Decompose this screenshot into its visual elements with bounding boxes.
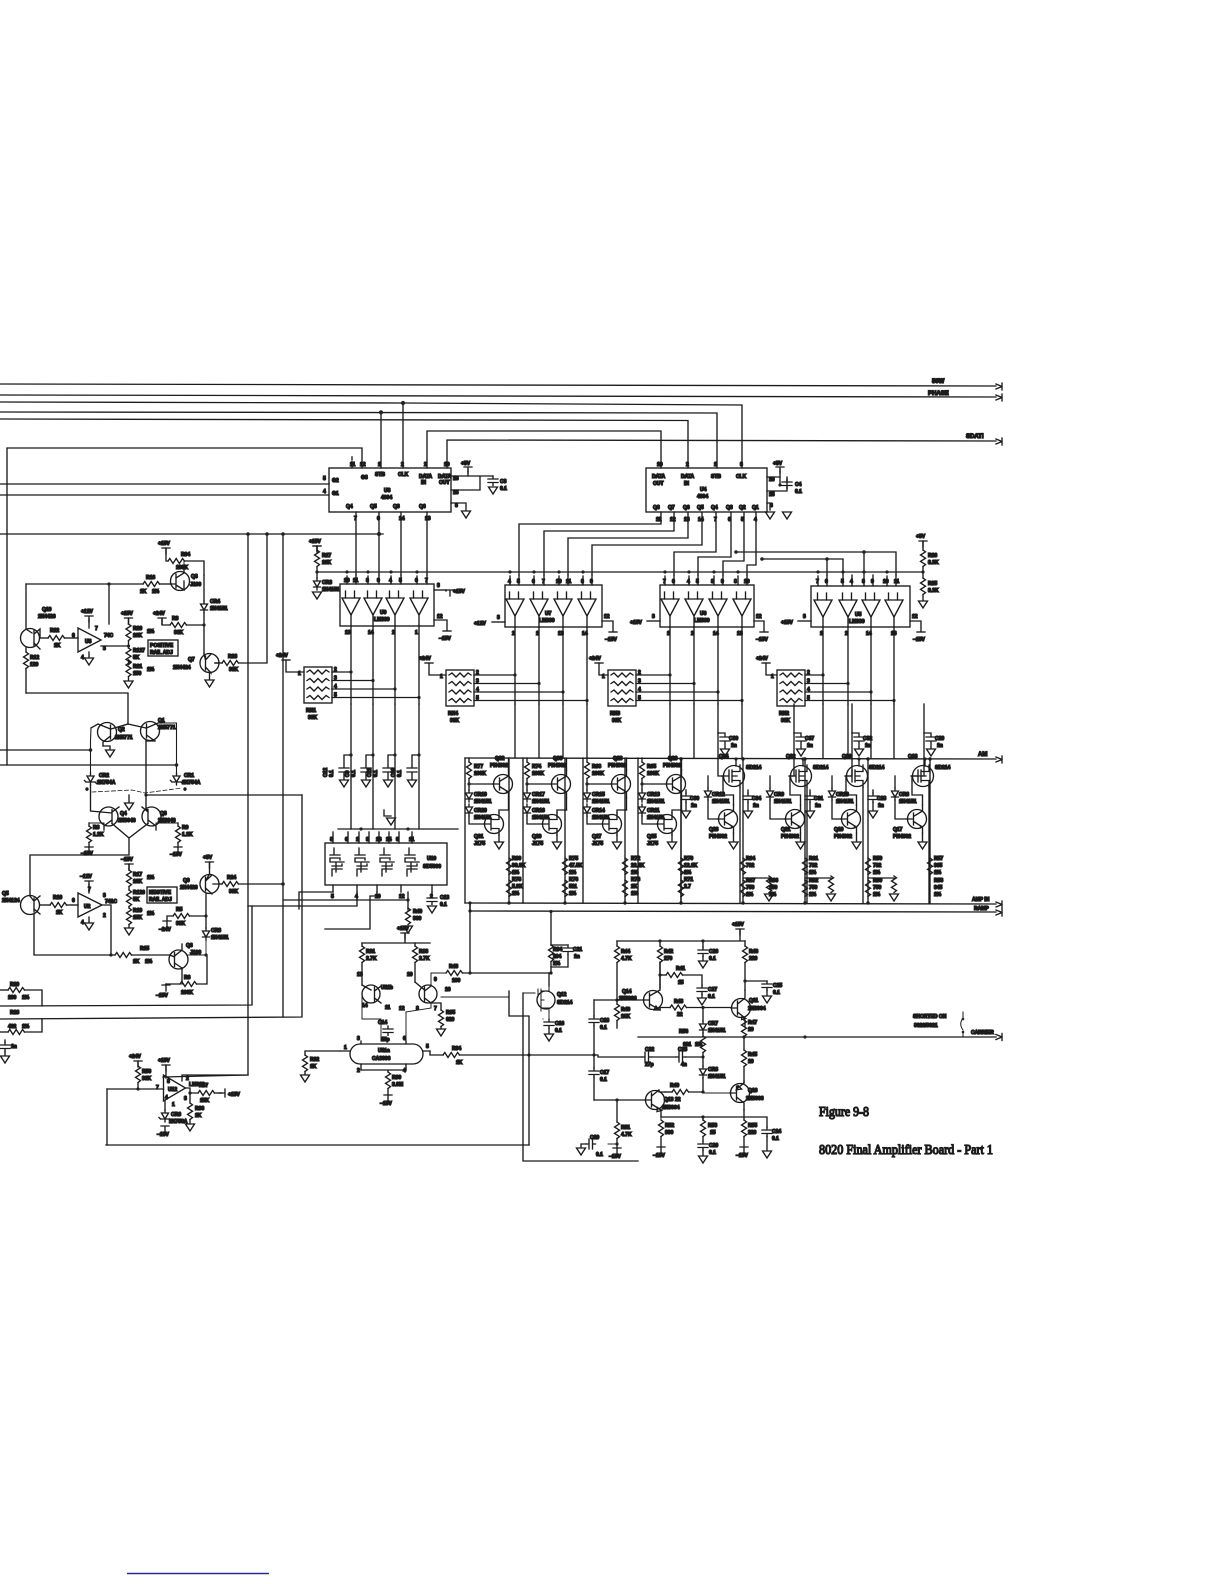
resistor R27b 1K column — [313, 546, 321, 552]
resistor R53 15 — [702, 1117, 704, 1120]
resistor R74 100K — [526, 758, 528, 762]
blue underline mark — [127, 1573, 269, 1575]
capacitor C27 0.1 — [697, 985, 707, 995]
diode CR7 1N4151 — [702, 1008, 704, 1022]
resistor R9 1.2K — [177, 823, 179, 826]
node RAMP line — [470, 911, 996, 912]
capacitor C32 1n + gate wire — [846, 704, 852, 776]
resistor R31 2.7K — [361, 943, 363, 946]
node AMP IN rail — [465, 903, 996, 904]
wire array right border — [929, 758, 931, 903]
capacitor C17 0.1 — [593, 1026, 595, 1069]
bias cell Q26 — [638, 756, 698, 903]
wire Q1Q2 base feed — [26, 693, 128, 724]
resistor R51 4.7K — [616, 1100, 618, 1122]
wire bus line 1 (50W) — [0, 384, 996, 386]
capacitor C1n left — [4, 1040, 6, 1042]
capacitor C24 0.1 — [744, 1117, 767, 1127]
resistor R8 1.2K — [90, 823, 104, 830]
diode CR19 1N4151 — [466, 790, 473, 802]
resistor R17 10K — [125, 864, 133, 870]
op-amp U3 74C — [72, 609, 114, 665]
transistor Q25 J175 — [657, 813, 677, 835]
wire U3 out to R127 — [101, 645, 129, 647]
transistor Q1 2N5771 — [128, 718, 176, 741]
transistor Q23 PN4392 — [718, 805, 738, 833]
output cell Q20 SD214 — [803, 704, 885, 903]
diode CR11 1N4151 — [639, 804, 646, 816]
resistor R22 1K — [40, 637, 48, 639]
wire bus line 2 (PHASE) — [0, 395, 996, 397]
capacitor C14 15p — [376, 1022, 386, 1038]
transistor Q2 2N5771 — [91, 722, 133, 746]
capacitor C22 27p — [594, 1055, 642, 1057]
ground U4 pin8 — [767, 503, 770, 510]
wire feedback y1145 — [106, 1144, 529, 1146]
transistor Q9 2N4426 — [180, 874, 219, 894]
resistor R68 100K — [586, 758, 588, 762]
resistor R28 402 1% — [0, 1031, 8, 1033]
capacitor C39 1n + gate wire — [718, 733, 723, 776]
wire U8 outputs to U9 inputs — [356, 512, 427, 575]
ground stub near U10 — [384, 810, 391, 816]
resistor R48 22 — [660, 1008, 670, 1011]
ic U8 4094 — [323, 456, 459, 522]
resistor R19 15K — [128, 907, 130, 909]
resistor R50 33K — [134, 1061, 142, 1067]
wire long vertical x248 — [163, 534, 248, 1077]
wire U8 data-out / SDATI — [447, 440, 996, 468]
resistor R24 33K — [219, 883, 222, 885]
transistor U11b right — [415, 982, 437, 1003]
diode CR14 1N4151 — [584, 804, 591, 816]
resistor R55 220 — [743, 1117, 745, 1120]
resistor network RN3 33K — [589, 656, 744, 724]
diode CR3 1N4151 — [205, 894, 207, 928]
capacitor C10 0.1 — [391, 704, 421, 829]
wire U4 pin15 to C4 — [767, 477, 787, 491]
transistor Q6 J109 — [169, 943, 201, 969]
resistor R33 2.7K — [414, 943, 416, 946]
mosfet Q18 SD214 — [911, 765, 934, 787]
wire bus line 4 (STB) — [0, 412, 717, 468]
node +15V rail U11 — [401, 933, 409, 939]
resistor R37 15K — [186, 1088, 199, 1093]
resistor R56 681 1% — [702, 1033, 704, 1036]
thermal coupling dashed — [92, 788, 182, 793]
output cell Q24 SD214 — [679, 733, 779, 903]
switch glyph — [961, 1012, 963, 1037]
bias cell Q32 — [465, 756, 526, 903]
diode CR3 — [314, 578, 321, 590]
diode CR17 1N4151 — [524, 790, 531, 802]
label NEGTIVE RAIL ADJ — [147, 887, 177, 903]
potentiometer R126 5K — [128, 887, 130, 891]
capacitor C28 1n — [868, 793, 878, 803]
resistor R35 620 — [431, 1003, 441, 1010]
wire U4 to U5 inputs nest — [736, 552, 896, 575]
capacitor C34 1n — [743, 793, 753, 803]
zener CR6 1N758A — [164, 1101, 166, 1110]
zener CR2 1N754A — [85, 773, 97, 785]
transistor Q27 J175 — [602, 813, 622, 835]
wire bus line 5 (DATA IN) — [0, 419, 688, 468]
ic U4 4094 — [646, 462, 775, 523]
transistor Q28 PN4392 — [611, 770, 631, 798]
diode CR8 1N4151 — [892, 788, 899, 800]
output cell Q18 SD214 — [866, 704, 951, 903]
resistor R12 120 — [25, 647, 27, 652]
wire feedback chain x509 x529 — [469, 903, 471, 971]
wire Q14 base chain — [594, 999, 617, 1001]
comparator bank U5 LM339 — [781, 570, 925, 643]
diode CR13 1N4151 — [639, 790, 646, 802]
resistor R27 1K — [313, 546, 321, 552]
mosfet Q12 SD214 — [523, 986, 573, 1013]
diode CR16 1N4151 — [524, 804, 531, 816]
comparator bank U6 LM339 — [630, 570, 768, 643]
wire U4 pin16 +5V — [767, 470, 780, 477]
transistor Q8 J109 — [171, 565, 202, 591]
wire bases / pins — [362, 994, 406, 1041]
node AM rail — [465, 758, 996, 759]
transistor Q19 PN4392 — [841, 805, 861, 833]
resistor R15 1K — [115, 953, 132, 958]
transistor Q13 2N3904 — [645, 1090, 680, 1117]
transistor Q30 PN4392 — [551, 770, 571, 798]
capacitor C26 0.1 — [702, 941, 704, 947]
capacitor C31 1n — [805, 793, 815, 803]
diode CR10 1N4151 — [829, 788, 836, 800]
resistor R34b 294 1% — [550, 911, 552, 945]
capacitor C12 0.1 — [323, 704, 353, 829]
resistor R65 100K — [641, 758, 643, 762]
comparator bank U9 LM339 — [340, 570, 465, 642]
wire long vertical x283 — [282, 534, 284, 1017]
resistor R45 10 — [743, 1037, 745, 1050]
resistor R40 360 — [407, 892, 409, 910]
wire U8 data-in from U4 data-out — [427, 431, 661, 468]
transistor Q32 PN4392 — [493, 770, 513, 798]
wire R16 net — [26, 583, 143, 585]
resistor R47 10 — [744, 1014, 746, 1026]
resistor R10 1K — [40, 904, 50, 906]
capacitor C19 0.1 — [608, 1143, 617, 1145]
node CARRIER line — [638, 1036, 996, 1038]
resistor R94 100K — [162, 548, 170, 554]
wire long rail y534 — [0, 533, 383, 535]
resistor R6 100K — [166, 968, 182, 984]
op-amp U2 741C — [72, 874, 117, 930]
resistor R44 4.7K — [616, 941, 618, 946]
transistor Q5 2N4124 — [2, 891, 40, 915]
wire y1017 to x302 — [0, 795, 302, 1019]
wire U4 Q8-Q5 to U7 inputs — [519, 512, 661, 575]
wire top-left loop — [8, 448, 362, 468]
resistor R46 220 — [744, 941, 746, 946]
transistor U11b left — [362, 985, 393, 1003]
diode CR15 1N4151 — [584, 790, 591, 802]
wire Q12 gate down — [523, 993, 638, 1161]
wire U10 bottom routing — [299, 892, 333, 909]
resistor R41 15 — [660, 974, 666, 976]
resistor R16 1K 1% — [143, 582, 160, 587]
node emitter join arrow — [125, 795, 134, 810]
bias cell Q30 — [523, 756, 583, 903]
resistor R40 18K — [616, 1000, 618, 1004]
node +15V rail bottom — [736, 929, 744, 935]
wire left input lines — [0, 749, 91, 751]
transistor Q7 2N4424 — [173, 654, 219, 674]
transistor Q11 2N3904 — [731, 990, 766, 1026]
capacitor C13 0.1 — [431, 892, 433, 895]
capacitor C29 1n + gate wire — [912, 704, 924, 776]
resistor R25 3.3K — [921, 578, 926, 595]
wire Q5 to Q6 line — [34, 914, 115, 955]
resistor R42 270 — [659, 941, 661, 946]
capacitor C3 0.1 — [488, 476, 498, 486]
wire y1005 to x252 — [0, 906, 252, 1006]
resistor R34 1K — [430, 1051, 443, 1055]
capacitor C30 1n — [681, 793, 691, 803]
mosfet Q24 SD214 — [722, 765, 745, 787]
transistor Q10 2N4426 — [21, 584, 56, 649]
capacitor C11 0.1 — [367, 704, 397, 829]
comparator bank U7 LM339 — [474, 570, 617, 643]
potentiometer R127 5K — [127, 644, 130, 647]
resistor R36 1K — [189, 1093, 191, 1103]
label POSITIVE RAIL ADJ — [148, 640, 178, 656]
capacitor C20 0.1 — [698, 1141, 708, 1151]
wire U8 left input G1 — [0, 494, 329, 496]
transistor Q17 PN4392 — [907, 805, 927, 833]
transistor Q26 PN4392 — [666, 770, 686, 798]
resistor R30 3.9M — [361, 1070, 406, 1072]
wire emitters to Q5 — [30, 830, 156, 896]
mosfet Q22 SD214 — [789, 765, 812, 787]
bias cell Q28 — [583, 756, 645, 903]
wire U4 Q4-Q1 to U6 inputs — [674, 512, 716, 575]
capacitor C23 4n — [652, 1056, 677, 1058]
transistor Q4 2N3646 — [91, 785, 136, 830]
zener CR1 1N754A — [171, 773, 183, 785]
capacitor C16 0.1 — [543, 1013, 549, 1019]
diode CR9 1N4151 — [767, 788, 774, 800]
capacitor C25 0.1 — [745, 980, 767, 982]
output cell Q22 SD214 — [741, 704, 829, 903]
capacitor C37 1n + gate wire — [790, 704, 794, 776]
resistor R3 33K — [158, 618, 166, 624]
wire emitter line y1117 — [661, 1110, 744, 1117]
resistor R21 150 — [128, 660, 130, 665]
transistor Q21 PN4392 — [785, 805, 805, 833]
resistor R26 3.3K — [919, 541, 927, 547]
resistor network RN2 33K — [756, 656, 896, 724]
resistor R23 33K — [215, 662, 222, 664]
resistor R29 100 1% — [0, 989, 8, 991]
wire bus line 3 (CLK) — [0, 402, 742, 468]
resistor R20 10K — [125, 618, 133, 624]
wire U8 pin16 +5V — [451, 470, 468, 476]
diode CR4 1N4151 — [203, 575, 205, 601]
resistor R52 390 — [660, 1117, 662, 1120]
capacitor C4 0.1 — [782, 479, 792, 489]
diode CR8 1N4151 — [702, 1057, 704, 1066]
resistor R49 22 — [689, 1078, 703, 1092]
transistor Q29 J175 — [542, 813, 562, 835]
resistor network RN1 33K — [276, 653, 421, 721]
transistor Q31 J175 — [484, 813, 504, 835]
ground U8 pin8 — [451, 503, 466, 510]
transistor Q3 2N3646 — [142, 741, 176, 830]
resistor R5 33K — [163, 921, 171, 927]
wire y795 — [146, 794, 302, 796]
diode CR20 1N4151 — [466, 804, 473, 816]
resistor network RN4 33K — [419, 656, 589, 724]
transistor Q14 2N3906 — [619, 962, 663, 1010]
diode CR12 1N4151 — [705, 788, 712, 800]
capacitor C18 0.1 — [593, 1000, 595, 1016]
capacitor C9 0.1 — [345, 704, 375, 829]
op-amp U12 LM318 — [107, 1058, 205, 1145]
node reference rail — [317, 571, 923, 573]
wire U12 -in from x248 — [182, 1075, 248, 1081]
resistor R77 100K — [468, 758, 470, 762]
mosfet Q20 SD214 — [845, 765, 868, 787]
ic U11a CA3096 — [340, 1036, 430, 1074]
resistor R43 100 — [431, 973, 446, 985]
wire U8 left input G2 — [0, 483, 329, 485]
wire comparator output drops — [351, 626, 894, 704]
resistor R32 1K — [305, 1051, 340, 1055]
wire U8 pin15 to C3 — [451, 476, 493, 490]
wire U2 out feedback — [102, 905, 111, 955]
capacitor C21 1n — [551, 944, 568, 946]
transistor Q16 2N3906 — [730, 1081, 764, 1110]
ic U10 SD5000 — [325, 827, 458, 900]
